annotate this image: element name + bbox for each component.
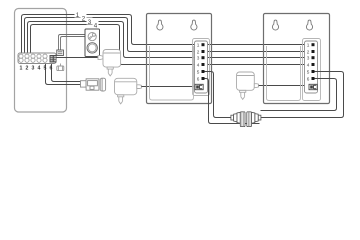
svg-text:6: 6	[197, 76, 200, 81]
electric door lock	[81, 78, 106, 91]
svg-text:2: 2	[197, 50, 200, 55]
wire monitor1 T6 under cable connector	[205, 79, 260, 124]
monitor 1 inner panel	[150, 46, 194, 100]
svg-text:6: 6	[307, 76, 310, 81]
monitor 1 (first indoor station)	[147, 14, 212, 104]
svg-text:4: 4	[307, 63, 310, 68]
right connector	[258, 115, 261, 120]
cable connector pair (extension joint)	[231, 112, 261, 127]
label 1	[75, 11, 81, 19]
svg-text:5: 5	[307, 69, 310, 74]
terminal numbers 1-6	[20, 66, 53, 72]
hanging plug below strip	[57, 64, 64, 71]
keyhole mount A	[157, 20, 163, 30]
svg-text:3: 3	[32, 66, 35, 72]
svg-text:1: 1	[76, 12, 80, 19]
svg-text:1: 1	[20, 66, 23, 72]
2-pin connector on station edge	[57, 50, 64, 56]
wire monitor1 T5 to cable connector	[205, 72, 232, 118]
key icon	[89, 33, 95, 39]
monitor 1 DC jack	[195, 84, 203, 89]
keyhole mount D	[306, 20, 312, 30]
camera / door-release module	[85, 29, 100, 57]
outdoor door station enclosure	[15, 9, 67, 113]
wire from station to power adapter PS1	[57, 57, 99, 59]
power adapter PS1 (door station)	[98, 50, 121, 76]
svg-text:4: 4	[94, 22, 98, 29]
wire 3 (terminal 3 to monitors bus row 3)	[28, 22, 317, 58]
connector block on strip right end	[50, 55, 57, 63]
terminal strip TB1 (door station)	[18, 53, 56, 64]
monitor 2 terminal dots	[312, 43, 315, 80]
svg-text:2: 2	[82, 15, 86, 22]
power adapter PS3 (second monitor)	[237, 72, 259, 99]
svg-text:1: 1	[307, 43, 310, 48]
label 4	[93, 21, 99, 29]
monitor 2 strip recess	[303, 39, 321, 101]
monitor 1 strip recess	[193, 39, 210, 96]
svg-text:5: 5	[197, 69, 200, 74]
svg-text:3: 3	[307, 56, 310, 61]
monitor 2 inner panel	[267, 46, 301, 101]
monitor 1 terminal dots	[202, 43, 205, 80]
label 2	[81, 14, 87, 22]
keyhole mount C	[272, 20, 278, 30]
monitor 2 terminal numbers	[307, 43, 310, 82]
wire PS3 to monitor 2 DC jack	[259, 85, 310, 87]
wire PS2 to monitor 1 DC jack	[141, 86, 195, 88]
keyhole mount B	[191, 20, 197, 30]
label 3	[87, 18, 93, 26]
svg-text:4: 4	[197, 63, 200, 68]
wire 4 (terminal 4 to monitors bus row 4)	[31, 25, 317, 65]
left connector	[231, 115, 234, 120]
svg-text:1: 1	[197, 43, 200, 48]
svg-text:6: 6	[50, 66, 53, 72]
power adapter PS2 (first monitor)	[115, 78, 142, 104]
svg-text:2: 2	[307, 50, 310, 55]
svg-text:4: 4	[38, 66, 41, 72]
camera/lock-module 2-wire cable	[59, 35, 86, 51]
wire 2 (terminal 2 to monitors bus row 2)	[25, 18, 317, 54]
monitor 1 terminal numbers	[197, 43, 200, 82]
svg-text:5: 5	[44, 66, 47, 72]
svg-text:3: 3	[88, 19, 92, 26]
monitor 2 (second indoor station)	[264, 14, 330, 104]
wire monitor2 T5 loop	[261, 72, 344, 118]
svg-text:2: 2	[26, 66, 29, 72]
wire monitor2 T6 loop	[261, 79, 337, 111]
monitor 1 terminal strip	[195, 41, 208, 93]
svg-text:3: 3	[197, 56, 200, 61]
wire 5 (terminal 5 to door lock)	[46, 64, 81, 85]
wire 1 (terminal 1 to monitors bus row 1)	[22, 15, 317, 54]
monitor 2 DC jack	[309, 84, 317, 89]
wire 6 (terminal 6 to door lock)	[52, 64, 81, 82]
monitor 2 terminal strip	[305, 41, 318, 93]
